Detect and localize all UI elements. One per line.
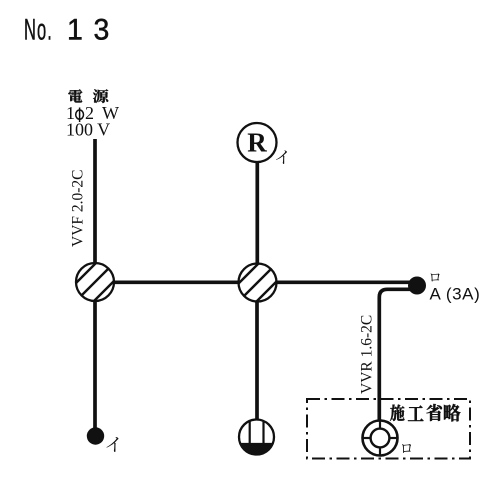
- svg-text:No.: No.: [24, 13, 53, 46]
- svg-text:VVR 1.6-2C: VVR 1.6-2C: [359, 315, 376, 394]
- svg-text:1: 1: [67, 14, 83, 47]
- automatic switch A(3A) (filled dot): [408, 277, 426, 295]
- svg-text:VVF 2.0-2C: VVF 2.0-2C: [70, 169, 87, 247]
- switch イ (single-pole, filled dot): [87, 427, 104, 444]
- wire: main horizontal run joint box1 - joint box2 - automatic switch: [95, 280, 413, 284]
- wire: power feed drop (vertical, x=95): [93, 139, 97, 282]
- construction-omitted boundary (dash-dot box): [307, 399, 470, 459]
- label ロ for outdoor light: [402, 444, 411, 453]
- label イ for switch: [106, 437, 118, 452]
- title No. 13: [24, 13, 109, 46]
- wire: VVR run from automatic switch down to outdoor light (curved): [379, 289, 413, 424]
- power source label 電源: [68, 89, 108, 103]
- svg-text:R: R: [247, 128, 267, 158]
- label 施工省略: [390, 404, 460, 421]
- lamp receptacle R: [238, 123, 277, 162]
- svg-text:3: 3: [94, 14, 110, 47]
- joint box 2 (hatched circle): [227, 252, 289, 314]
- wall outlet (receptacle) symbol: [239, 420, 274, 455]
- wire: joint box 1 to switch イ (vertical): [93, 282, 97, 432]
- svg-text:A (3A): A (3A): [430, 285, 481, 304]
- outdoor light ロ (double circle with spokes): [363, 421, 398, 456]
- wire: lamp receptacle R to joint box 2 (vertical): [255, 145, 259, 282]
- phi symbol: [76, 108, 84, 123]
- power source label 1phi2W: [66, 103, 119, 123]
- label ロ for automatic switch: [431, 273, 440, 281]
- svg-text:100 V: 100 V: [66, 120, 110, 140]
- joint box 1 (hatched circle): [64, 251, 126, 313]
- wire: joint box 2 down to outlet (vertical): [255, 282, 259, 424]
- label イ for lamp receptacle: [276, 150, 287, 164]
